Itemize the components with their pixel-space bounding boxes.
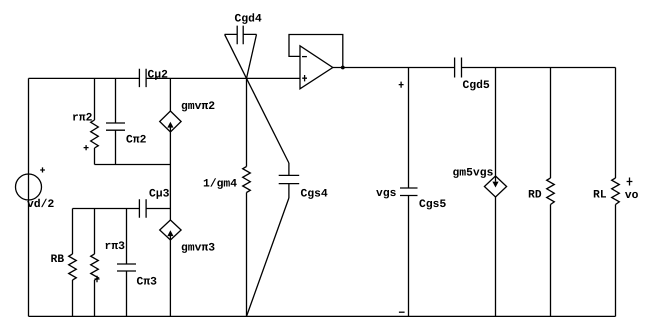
wire Cgd4 right slant to junction <box>247 34 257 78</box>
resistor 1/gm4 <box>204 78 251 316</box>
node minus vgs bottom <box>399 311 405 313</box>
capacitor Cpi2 <box>106 78 146 164</box>
wire op-amp output <box>333 67 455 69</box>
wire gm2 column down through junctions <box>169 132 171 220</box>
wire vd/2 column <box>28 78 30 316</box>
wire sub-bottom row (y=164) <box>95 164 171 166</box>
wire vgs column lower <box>408 196 410 317</box>
voltage source vd/2 <box>16 167 54 207</box>
wire row2 (y=208.5) <box>73 208 171 210</box>
node output dot <box>341 66 345 70</box>
capacitor Cgs5 <box>376 188 446 209</box>
wire top-right rail <box>462 67 616 69</box>
capacitor Cgd4 <box>225 13 262 44</box>
current source gmvpi2 <box>160 78 215 132</box>
node plus vgs label <box>399 82 404 88</box>
wire bottom rail <box>29 315 616 317</box>
resistor rpi2 <box>73 78 98 164</box>
wire Cgd4 left slant to junction <box>225 34 247 78</box>
node plus vo <box>627 178 633 186</box>
capacitor Cpi3 <box>117 209 156 317</box>
wire row1 right of Cu2 to op-amp + input <box>146 77 300 79</box>
wire Cgs4 bottom slant to bottom rail <box>247 198 289 316</box>
current source gm5vgs <box>453 68 506 317</box>
wire op-amp feedback loop <box>289 35 343 68</box>
resistor RL <box>594 68 620 317</box>
capacitor Cgs4 <box>279 163 328 199</box>
resistor rpi3 <box>91 209 125 317</box>
wire row1 left (top-left horizontal, y=78) <box>29 77 140 79</box>
op-amp U1 <box>300 46 333 89</box>
capacitor Cgd5 <box>455 58 490 91</box>
capacitor Cu2 <box>139 69 167 87</box>
wire junction to Cgs4 slant <box>247 78 289 163</box>
resistor RD <box>529 68 555 317</box>
resistor RB <box>51 209 76 317</box>
wire gm3 column to bottom rail <box>169 240 171 316</box>
capacitor Cu3 <box>139 189 169 218</box>
current source gmvpi3 <box>160 220 215 253</box>
wire vgs column <box>408 68 410 189</box>
node vo label <box>625 192 638 198</box>
